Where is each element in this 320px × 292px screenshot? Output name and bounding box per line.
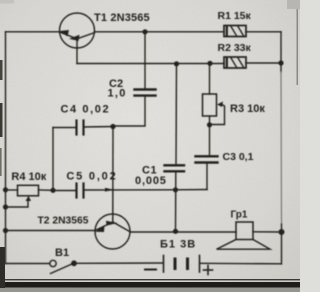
- wire: C1 top lead (long vertical): [175, 64, 178, 166]
- wire: left rail: [5, 32, 7, 264]
- wire: right rail top: [280, 32, 282, 72]
- wire: R2 right to rail: [246, 62, 281, 64]
- arrow on base-line crossing: [105, 188, 114, 192]
- transistor T2: [95, 214, 131, 249]
- svg-text:0,005: 0,005: [135, 175, 167, 187]
- wire: C1 bottom lead: [175, 171, 177, 231]
- svg-text:В1: В1: [55, 247, 69, 259]
- wire: R3 top lead: [209, 63, 211, 94]
- resistor R2: [224, 57, 246, 68]
- wire: top line right of R1: [246, 31, 281, 33]
- wire: right rail bottom: [281, 224, 283, 264]
- wire: switch to battery: [77, 262, 163, 264]
- node: junction C1 / C5-C3 line: [173, 187, 178, 192]
- wire: T2 emitter to left rail: [6, 230, 96, 232]
- svg-text:C4 0,02: C4 0,02: [61, 103, 111, 115]
- node: junction left rail / T2: [3, 228, 8, 233]
- battery B1 3V: [145, 256, 213, 275]
- scan artifact: top-left corner: [0, 0, 14, 4]
- capacitor C4: [53, 121, 113, 135]
- node: junction top line / C2 branch: [142, 29, 147, 34]
- wire: right rail middle (faint): [280, 72, 283, 224]
- scan artifact: left edge marks: [0, 60, 3, 80]
- svg-text:T1 2N3565: T1 2N3565: [94, 12, 150, 24]
- wire: top supply line left segment: [6, 31, 60, 33]
- svg-text:R1 15к: R1 15к: [218, 10, 252, 22]
- node: junction second line / R3 branch: [207, 61, 212, 66]
- capacitor C3: [176, 156, 218, 190]
- node: junction second line / C1 branch: [174, 61, 179, 66]
- svg-text:C3 0,1: C3 0,1: [223, 151, 254, 163]
- wire: vertical between C4 and C5 lines: [52, 128, 54, 191]
- capacitor C2: [113, 90, 156, 127]
- svg-text:Гр1: Гр1: [231, 210, 248, 221]
- potentiometer R4: [3, 185, 53, 209]
- svg-text:R2 33к: R2 33к: [218, 42, 252, 54]
- svg-text:R4 10к: R4 10к: [11, 171, 46, 183]
- wire: battery to right rail: [200, 262, 281, 265]
- node: junction C1 lead / T2 collector line: [173, 229, 178, 234]
- node: base node of T2 (C4/C2 junction): [110, 124, 115, 129]
- speaker Gr1: [217, 222, 285, 249]
- resistor R1: [224, 26, 246, 37]
- switch B1: [50, 260, 77, 273]
- potentiometer R3: [203, 94, 225, 127]
- wire: second line (T1 base to R2): [77, 63, 224, 65]
- svg-text:R3 10к: R3 10к: [230, 103, 265, 115]
- scan artifact: bottom thin rule: [0, 279, 300, 280]
- wire: R3 bottom lead down to C3: [209, 116, 211, 155]
- node: junction second line / right rail: [278, 60, 283, 65]
- transistor T1: [60, 13, 95, 64]
- wire: T2 base vertical: [112, 127, 114, 223]
- wire: top supply line middle segment: [95, 31, 225, 33]
- svg-text:Б1 3В: Б1 3В: [160, 239, 196, 251]
- svg-text:C5 0,02: C5 0,02: [66, 171, 117, 183]
- scan artifact: right edge: [297, 0, 299, 85]
- capacitor C1: [165, 165, 185, 171]
- node: junction C5 line / left vertical: [50, 188, 55, 193]
- svg-text:T2 2N3565: T2 2N3565: [38, 215, 89, 226]
- wire: bottom left from rail to switch: [6, 263, 50, 265]
- scan artifact: bottom dark band: [0, 282, 300, 288]
- wire: T2 collector line to speaker: [131, 231, 237, 233]
- wire: C2 branch from top line: [144, 32, 146, 89]
- svg-text:1,0: 1,0: [108, 88, 127, 100]
- capacitor C5: [53, 184, 176, 198]
